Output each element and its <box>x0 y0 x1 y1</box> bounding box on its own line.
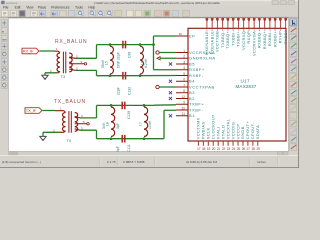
svg-text:4: 4 <box>183 66 185 70</box>
svg-text:Edit: Edit <box>15 6 21 10</box>
svg-text:File: File <box>3 6 9 10</box>
svg-text:RXBBQ+: RXBBQ+ <box>262 30 267 49</box>
svg-text:3n9: 3n9 <box>102 123 106 129</box>
svg-text:19: 19 <box>207 147 211 151</box>
svg-text:3pF: 3pF <box>116 123 120 129</box>
svg-text:12: 12 <box>181 95 185 99</box>
svg-text:20: 20 <box>212 147 216 151</box>
svg-text:U17: U17 <box>241 79 250 84</box>
svg-text:Help: Help <box>88 6 95 10</box>
svg-text:6.2nH: 6.2nH <box>144 58 148 68</box>
svg-text:View: View <box>26 6 34 10</box>
svg-text:EP: EP <box>189 34 195 39</box>
svg-text:Preferences: Preferences <box>51 6 70 10</box>
svg-text:L?: L? <box>139 122 143 126</box>
svg-text:21: 21 <box>217 147 221 151</box>
svg-text:TXBBI-: TXBBI- <box>230 30 235 45</box>
svg-text:B2: B2 <box>189 96 195 101</box>
svg-text:3: 3 <box>183 60 185 64</box>
svg-text:VCCTXPAB: VCCTXPAB <box>189 84 215 89</box>
svg-text:29: 29 <box>256 147 260 151</box>
svg-text:Tools: Tools <box>75 6 83 10</box>
svg-text:eeschema: eeschema <box>6 2 18 5</box>
svg-text:C132: C132 <box>128 87 132 95</box>
svg-text:RXBF+: RXBF+ <box>189 67 205 72</box>
svg-text:TXBBI+: TXBBI+ <box>236 30 241 46</box>
svg-text:1: 1 <box>183 49 185 53</box>
svg-text:TX_BALUN: TX_BALUN <box>54 99 86 105</box>
svg-text:TXBF-: TXBF- <box>189 107 203 112</box>
svg-text:11: 11 <box>182 112 186 116</box>
svg-text:RXBBI+: RXBBI+ <box>272 30 277 47</box>
svg-text:[ hackrf-one ] /home/user/hack: [ hackrf-one ] /home/user/hackrf/hardwar… <box>94 1 220 5</box>
svg-text:B4: B4 <box>189 79 195 84</box>
svg-text:22: 22 <box>222 147 226 151</box>
svg-text:MAX2837: MAX2837 <box>236 84 257 89</box>
svg-text:C99: C99 <box>128 52 132 58</box>
svg-text:26: 26 <box>242 147 246 151</box>
svg-text:23: 23 <box>227 147 231 151</box>
svg-text:18: 18 <box>202 147 206 151</box>
svg-text:Inches: Inches <box>257 160 266 164</box>
svg-text:RXENABLE: RXENABLE <box>204 31 209 55</box>
svg-text:6: 6 <box>183 78 185 82</box>
svg-text:10nH: 10nH <box>148 120 152 129</box>
svg-text:SDATA: SDATA <box>255 125 260 140</box>
svg-text:2: 2 <box>183 55 185 59</box>
svg-text:[1.8] unexpected found in (...: [1.8] unexpected found in (...) <box>2 160 41 164</box>
svg-text:TXBBQ+: TXBBQ+ <box>225 30 230 48</box>
svg-text:C139: C139 <box>127 111 131 119</box>
svg-text:B3: B3 <box>189 90 195 95</box>
svg-text:RX_BALUN: RX_BALUN <box>55 39 87 45</box>
svg-text:T3: T3 <box>61 75 65 79</box>
svg-text:RX_IF: RX_IF <box>23 49 34 54</box>
svg-text:VCCRXQ: VCCRXQ <box>241 31 246 50</box>
svg-text:10: 10 <box>181 106 185 110</box>
svg-text:TXBF+: TXBF+ <box>189 102 204 107</box>
svg-text:RXBF-: RXBF- <box>189 73 204 78</box>
svg-text:C111: C111 <box>127 144 131 152</box>
svg-text:56nH: 56nH <box>101 59 105 68</box>
svg-text:TX_IF: TX_IF <box>26 108 37 113</box>
svg-text:22pF: 22pF <box>117 87 121 95</box>
svg-text:VCCRXVGA: VCCRXVGA <box>251 31 256 56</box>
svg-text:8: 8 <box>183 89 185 93</box>
svg-text:Place: Place <box>38 6 47 10</box>
svg-text:Z 1.75: Z 1.75 <box>107 160 116 164</box>
svg-text:25: 25 <box>237 147 241 151</box>
svg-text:9: 9 <box>183 101 185 105</box>
svg-text:RXBBI-: RXBBI- <box>267 30 272 46</box>
svg-text:X 888.8 Y 8.888: X 888.8 Y 8.888 <box>123 160 145 164</box>
svg-text:5: 5 <box>183 72 185 76</box>
svg-text:49: 49 <box>179 32 183 36</box>
svg-text:RXBBI: RXBBI <box>283 31 288 45</box>
svg-text:17: 17 <box>197 147 201 151</box>
svg-text:RXQP: RXQP <box>246 31 251 44</box>
svg-text:GNDRXLNA: GNDRXLNA <box>189 56 216 61</box>
svg-text:RXHP: RXHP <box>278 31 283 44</box>
svg-text:dx 8.88 dy 8.88 dist 8.8: dx 8.88 dy 8.88 dist 8.8 <box>186 160 217 164</box>
svg-text:27: 27 <box>247 147 251 151</box>
svg-text:T4: T4 <box>67 139 71 143</box>
svg-text:RXBBQ-: RXBBQ- <box>257 30 262 48</box>
svg-text:3pF: 3pF <box>116 146 120 152</box>
svg-text:L5: L5 <box>105 61 109 65</box>
svg-text:mm: mm <box>2 37 7 41</box>
svg-text:L8: L8 <box>106 122 110 126</box>
svg-text:VCCTXBB: VCCTXBB <box>215 31 220 52</box>
svg-text:TXENABLE: TXENABLE <box>209 31 214 55</box>
svg-text:TXBBQ-: TXBBQ- <box>220 30 225 47</box>
svg-text:24: 24 <box>232 147 236 151</box>
svg-text:B1: B1 <box>189 113 195 118</box>
svg-text:28: 28 <box>251 147 255 151</box>
svg-text:B5: B5 <box>189 61 195 66</box>
svg-text:7: 7 <box>183 83 185 87</box>
svg-text:DNP 22pF: DNP 22pF <box>117 52 121 68</box>
